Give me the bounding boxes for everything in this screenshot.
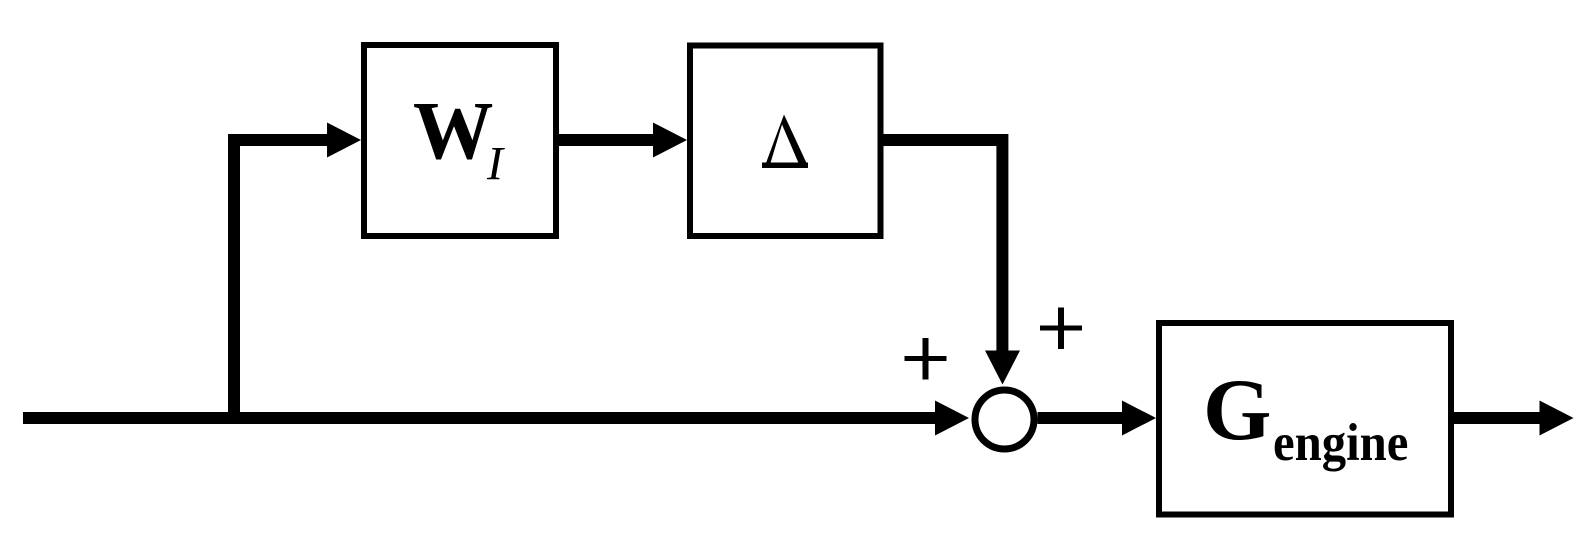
- block Delta: [690, 46, 881, 237]
- wire: output from G_engine: [1454, 412, 1542, 424]
- arrowhead into G_engine box: [1122, 401, 1156, 436]
- label Delta: [762, 115, 808, 169]
- summing junction circle: [975, 390, 1034, 449]
- arrowhead down into summing junction: [985, 351, 1020, 385]
- svg-text:engine: engine: [1273, 414, 1408, 472]
- wire: main input line: [23, 412, 940, 424]
- plus sign upper right of summing junction: [1040, 326, 1082, 331]
- block W_I: [364, 45, 556, 236]
- wire: summing junction to G_engine: [1038, 412, 1126, 424]
- arrowhead into summing junction from main line: [935, 401, 969, 436]
- wire: branch from main line up and right toward W_I: [234, 140, 330, 424]
- svg-text:I: I: [486, 138, 505, 191]
- plus sign left of summing junction: [905, 356, 947, 361]
- block G_engine: [1159, 323, 1451, 515]
- wire: Delta output elbow down to summing junction: [883, 140, 1002, 353]
- wire: W_I to Delta: [559, 134, 656, 146]
- arrowhead output: [1540, 401, 1574, 436]
- arrowhead into Delta box: [653, 123, 687, 158]
- svg-text:W: W: [413, 85, 493, 177]
- arrowhead into W_I box: [327, 123, 361, 158]
- svg-text:G: G: [1203, 362, 1271, 459]
